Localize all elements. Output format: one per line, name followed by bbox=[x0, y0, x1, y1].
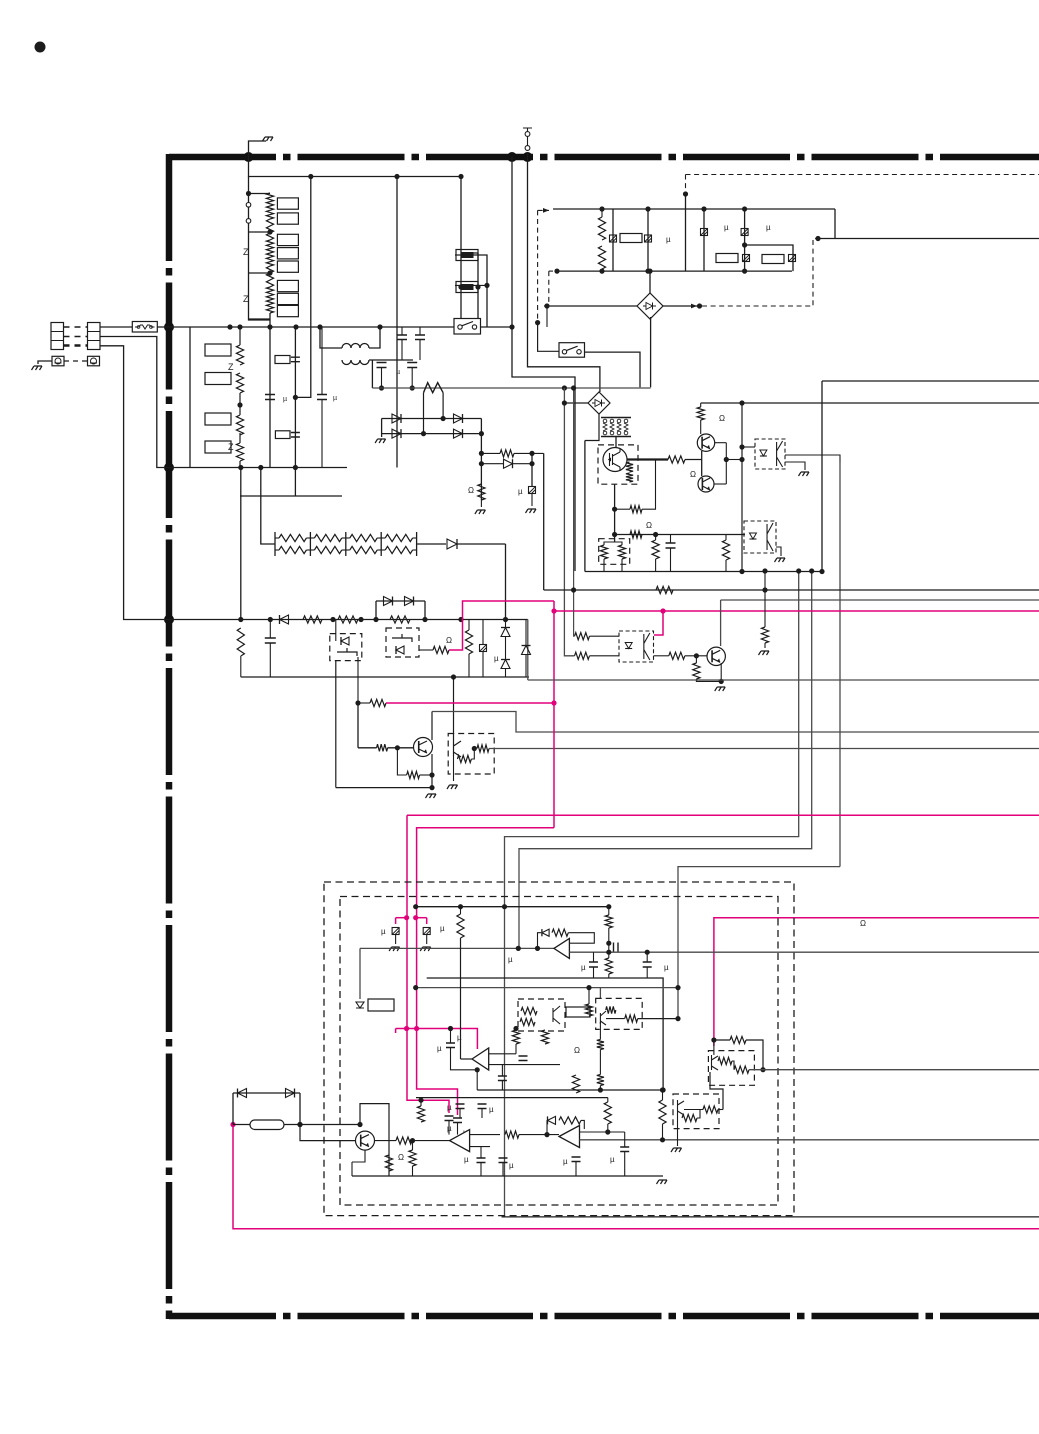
junction dashed drop bbox=[535, 320, 540, 325]
wire rect center tap bbox=[381, 419, 383, 438]
wire R41 to base bbox=[685, 459, 702, 461]
resistor R98 bbox=[520, 1018, 535, 1025]
diode D74 bbox=[454, 414, 463, 423]
wire chain bar 3 bbox=[380, 532, 382, 556]
resistor R110 bbox=[559, 1117, 581, 1124]
wire C96 stub bbox=[501, 1065, 503, 1076]
resistor R14 value box bbox=[277, 261, 298, 272]
wire R66 left bbox=[358, 702, 370, 704]
junction relay ladder bbox=[458, 174, 463, 179]
wire R100b top bbox=[588, 988, 590, 1004]
driver dashed box B bbox=[596, 998, 643, 1029]
resistor R24 bbox=[236, 443, 243, 461]
junction O1 w2 bbox=[516, 946, 521, 951]
wire ladder bottom corner bbox=[249, 318, 271, 320]
junction R117 top bbox=[660, 1087, 665, 1092]
wire boxB left drop bbox=[357, 657, 359, 703]
wire chain stub 3a bbox=[381, 537, 385, 539]
wire C51 stubs bbox=[670, 535, 672, 544]
resistor R65 bbox=[433, 646, 449, 653]
wire chain bar 0 bbox=[274, 532, 276, 556]
wire lamp loop top bbox=[233, 1092, 300, 1094]
wire D2 gnd bbox=[677, 1115, 679, 1146]
transistor Q93 bbox=[356, 1131, 375, 1150]
capacitor C21 bbox=[265, 395, 275, 400]
wire choke top out bbox=[369, 341, 380, 348]
wire C98 stub2 bbox=[481, 1109, 483, 1119]
wire chain stub 1d bbox=[342, 549, 346, 551]
wire R74 to Q71 bbox=[685, 655, 707, 657]
resistor R92 bbox=[552, 929, 568, 936]
wire cluster left riser bbox=[584, 441, 586, 572]
junction dot border-top C bbox=[523, 152, 533, 162]
wire w1 step bbox=[502, 571, 799, 1217]
wire filter col240d bbox=[239, 461, 241, 468]
wire y590 net bbox=[544, 589, 1039, 591]
wire rail978 drop bbox=[426, 931, 428, 934]
bead FB3 bbox=[701, 229, 708, 236]
lamp LP1 bbox=[250, 1120, 284, 1130]
wire aux rail bbox=[169, 619, 454, 621]
bead FB6 bbox=[789, 255, 796, 262]
bead FB1 bbox=[610, 235, 617, 242]
resistor R101 bbox=[625, 1015, 638, 1022]
resistor R66 bbox=[370, 699, 386, 706]
transformer T1 core bbox=[601, 418, 631, 437]
wire FB9 gnd bbox=[395, 935, 397, 945]
capacitor C51 bbox=[666, 543, 676, 548]
wire U3 inputs2 bbox=[470, 1146, 490, 1148]
wire D68 bot bbox=[525, 655, 527, 678]
wire PC4 in top bbox=[573, 388, 576, 636]
wire R101 in bbox=[606, 1018, 625, 1020]
junction R111 bbox=[605, 1129, 610, 1134]
junction rail1090 a bbox=[598, 1087, 603, 1092]
wire cap C23 stub2 bbox=[321, 400, 323, 468]
svg-text:Ω: Ω bbox=[719, 414, 725, 423]
wire Q93 base bbox=[300, 1125, 356, 1141]
wire ladder left bbox=[249, 177, 271, 321]
resistor R76 bbox=[656, 586, 673, 593]
wire y255 link bbox=[455, 255, 487, 327]
wire D1 to D2 bbox=[710, 1072, 723, 1110]
wire aux corner to bus bbox=[527, 620, 529, 681]
wire R54 stubs bbox=[655, 535, 657, 541]
resistor chain R83 bottom bbox=[385, 546, 412, 553]
wire block2 vert744 bbox=[744, 209, 746, 271]
junction bypass b bbox=[422, 617, 427, 622]
resistor chain R81 bottom bbox=[314, 546, 341, 553]
resistor R91 bbox=[457, 914, 464, 938]
wire R102 link bbox=[515, 1044, 517, 1054]
wire R109 out bbox=[519, 1134, 559, 1136]
border top bbox=[169, 154, 1039, 161]
inductor L1 top winding bbox=[342, 344, 369, 349]
resistor chain R80 bottom bbox=[279, 546, 306, 553]
dashed net arrow run bbox=[538, 209, 549, 211]
thermistor TH2 box bbox=[456, 282, 478, 293]
wire D66 link bbox=[505, 637, 507, 660]
wire R75 link bbox=[695, 656, 697, 663]
wire lamp loop sides bbox=[232, 1093, 234, 1125]
junction row464 b bbox=[529, 461, 534, 466]
junction src a bbox=[612, 507, 617, 512]
wire w2 step bbox=[519, 571, 812, 948]
junction aux d bbox=[358, 617, 363, 622]
pink feed u-caps bbox=[395, 1029, 397, 1034]
resistor R10 element bbox=[266, 193, 273, 206]
wire R67 stubs bbox=[468, 620, 470, 631]
wire secondary bus bbox=[372, 387, 650, 389]
junction ladder b bbox=[267, 270, 272, 275]
ground Q64 bbox=[426, 794, 437, 798]
fusible resistor FR1 bbox=[424, 383, 444, 393]
junction staircase bbox=[357, 1122, 362, 1127]
junction col296 bbox=[293, 465, 298, 470]
pink bottom left bbox=[233, 1125, 1039, 1229]
dashed net top bbox=[537, 210, 539, 322]
resistor R100 bbox=[606, 1006, 616, 1013]
mosfet Q1 bbox=[603, 448, 627, 472]
junction relay L bbox=[458, 284, 463, 289]
wire bypass down bbox=[424, 601, 426, 620]
regulator dashed box D2 bbox=[673, 1094, 719, 1129]
pink junction y611 bbox=[551, 608, 556, 613]
resistor R69 bbox=[407, 771, 420, 778]
wire PC4 in bot2 bbox=[590, 655, 620, 657]
wire rect row1 bbox=[382, 418, 482, 420]
capacitor C32 value box bbox=[716, 254, 738, 263]
wire PC2 gnd bbox=[785, 462, 805, 470]
regulator Q65 glyph bbox=[454, 741, 462, 757]
wire boxA drop bbox=[335, 660, 337, 788]
wire lamp loop sides2 bbox=[299, 1093, 301, 1125]
snubber bail bbox=[604, 542, 622, 545]
resistor R74 bbox=[669, 652, 685, 659]
junction rail978 corner bbox=[661, 1087, 666, 1092]
wire R118 bot bbox=[420, 1122, 422, 1125]
junction PC4 top bus bbox=[571, 385, 576, 390]
wire R32 stub bbox=[601, 269, 603, 271]
junction C28 bus bbox=[410, 385, 415, 390]
wire C95 stub bbox=[450, 1029, 452, 1044]
wire x543 drop2 bbox=[543, 453, 545, 590]
wire x527 drop staircase bbox=[528, 157, 600, 392]
fuse F1 glyph bbox=[135, 326, 155, 328]
wire mid rail1097 bbox=[416, 1097, 608, 1099]
junction PC4 top feed bbox=[571, 587, 576, 592]
arrow bridge1 out bbox=[691, 304, 697, 309]
junction O1 out a bbox=[606, 950, 611, 955]
wire Q64 base div bbox=[397, 748, 406, 775]
wire block2 right vert bbox=[834, 209, 836, 239]
op-amp U3 bbox=[450, 1130, 470, 1152]
wire ladder row links bbox=[249, 231, 271, 233]
junction w1 rail bbox=[796, 568, 801, 573]
wire block2 left vert bbox=[703, 209, 705, 271]
junction filter b bbox=[237, 402, 242, 407]
varistor VA3 value box bbox=[205, 413, 231, 425]
junction dot border-top B bbox=[507, 152, 517, 162]
transistor Q2 bbox=[697, 434, 714, 451]
bead FB8 bbox=[529, 487, 536, 494]
wire rect row1 vert bbox=[480, 419, 482, 501]
dashed stub mid bbox=[548, 271, 550, 306]
wire C27 stub2 bbox=[381, 368, 383, 389]
wire R63 bot bbox=[240, 656, 242, 677]
ground rail1176 bbox=[657, 1180, 668, 1184]
wire x512 drop bbox=[512, 157, 575, 571]
wire PC4 in top2 bbox=[590, 635, 620, 637]
diode D92 bbox=[548, 1116, 556, 1124]
pink branch caps bbox=[396, 917, 407, 919]
ground D2 bbox=[671, 1148, 682, 1152]
thermistor TH1 box bbox=[456, 250, 478, 261]
regulator Q95 glyph bbox=[678, 1100, 685, 1115]
wire C101 stub bbox=[480, 1147, 482, 1158]
wire row464b bbox=[513, 463, 532, 465]
wire filter left vert bbox=[189, 327, 191, 468]
bead FB2 bbox=[645, 235, 652, 242]
capacitor C104 bbox=[445, 1116, 454, 1121]
resistor R93 bbox=[605, 915, 612, 928]
wire block1 bottom rail bbox=[556, 270, 792, 272]
wire block2 out bbox=[818, 238, 1039, 240]
svg-text:Ω: Ω bbox=[398, 1153, 404, 1162]
wire U2 out bbox=[461, 1058, 473, 1060]
junction R113 out bbox=[760, 1067, 765, 1072]
capacitor C102 bbox=[499, 1158, 508, 1163]
junction Q64 base bbox=[395, 745, 400, 750]
resistor chain R82 top bbox=[350, 534, 377, 541]
resistor R22 bbox=[236, 373, 243, 393]
junction boxC in bbox=[451, 674, 456, 679]
wire C103 stub bbox=[457, 1123, 459, 1135]
junction mains x512 bbox=[509, 324, 514, 329]
junction y285 bbox=[484, 283, 489, 288]
wire line3 drop bbox=[100, 346, 169, 620]
wire R69 to gnd bbox=[420, 774, 432, 776]
bus y680 bbox=[528, 679, 1039, 681]
resistor R79 bbox=[478, 484, 485, 500]
wire R104 stub bbox=[575, 1059, 577, 1075]
wire chain stub 2a bbox=[346, 537, 350, 539]
wire rail907 bbox=[416, 906, 609, 908]
wire R94 top bbox=[608, 952, 610, 958]
junction lamp right bbox=[297, 1122, 302, 1127]
resistor R107 bbox=[396, 1137, 412, 1144]
wire chain stub 0c bbox=[275, 549, 279, 551]
wire chain stub 0d bbox=[306, 549, 310, 551]
ground FB9 bbox=[389, 947, 400, 951]
wire chain bar 4 bbox=[416, 532, 418, 556]
wire SW2 out bbox=[585, 352, 640, 387]
wire step y711 bbox=[432, 712, 1039, 733]
svg-text:Z: Z bbox=[243, 294, 249, 304]
capacitor C100 bbox=[620, 1147, 629, 1152]
pink vertical x554 bbox=[553, 601, 555, 828]
resistor R67 bbox=[465, 630, 472, 654]
wire w3 step bbox=[678, 867, 840, 1019]
zener ZD2 bbox=[356, 1002, 364, 1008]
wire Q pair out bbox=[726, 459, 742, 461]
resistor R72 bbox=[575, 633, 590, 640]
varistor VA4 value box bbox=[205, 441, 231, 453]
wire y403 bus bbox=[701, 402, 1039, 404]
resistor R11 value box bbox=[277, 213, 298, 224]
wire rail987 drop bbox=[599, 988, 601, 999]
junction R113 in bbox=[711, 1037, 716, 1042]
wire bypass up bbox=[375, 601, 377, 620]
junction O1 fb bbox=[535, 946, 540, 951]
wire C92 stub bbox=[593, 952, 595, 962]
thermistor TH2 element bbox=[461, 284, 474, 290]
resistor R17 element bbox=[266, 300, 273, 313]
wire T1 to mosfet bbox=[615, 437, 617, 449]
wire C93 stub2 bbox=[646, 967, 648, 978]
wire R93 stub bbox=[608, 907, 610, 915]
wire block1 vert648 bbox=[647, 209, 649, 271]
wire O1 fb bbox=[538, 933, 542, 949]
junction bridge1 top bbox=[647, 269, 652, 274]
varistor VA1 value box bbox=[205, 344, 231, 356]
wire R106 bot bbox=[599, 1086, 601, 1091]
capacitor C23 bbox=[317, 395, 327, 400]
resistor R94 bbox=[605, 958, 612, 974]
junction mains x320 bbox=[317, 324, 322, 329]
resistor R12 element bbox=[266, 219, 273, 240]
svg-text:µ: µ bbox=[581, 963, 586, 972]
wire boxC out bbox=[489, 748, 1039, 750]
junction dot border-left aux bbox=[164, 615, 174, 625]
junction Q64 emitter res bbox=[429, 772, 434, 777]
wire C28 stub2 bbox=[411, 368, 413, 389]
wire bridge1 drop vert bbox=[546, 306, 548, 327]
wire filter to aux drop bbox=[240, 468, 242, 620]
pink bus y815 bbox=[407, 814, 1039, 816]
wire driver out bbox=[638, 1018, 678, 1020]
junction dot border-top A bbox=[244, 152, 254, 162]
resistor chain R80 top bbox=[279, 534, 306, 541]
wire ladder right vert bbox=[295, 177, 310, 398]
wire rail1176 drop bbox=[351, 1162, 353, 1176]
resistor R117 bbox=[659, 1100, 666, 1124]
wire U3 inputs bbox=[470, 1134, 500, 1136]
junction mains x270 bbox=[267, 324, 272, 329]
svg-text:µ: µ bbox=[494, 654, 499, 663]
wire cap C25 stub bbox=[401, 327, 403, 335]
junction 685 drop bbox=[683, 191, 688, 196]
wire aux right corner bbox=[528, 620, 530, 678]
resistor R51 bbox=[630, 506, 642, 513]
wire line to fuse bbox=[100, 326, 132, 328]
wire row453 bbox=[481, 452, 500, 454]
dashed return bbox=[547, 305, 699, 307]
wire choke bot in bbox=[296, 359, 342, 361]
resistor R109 bbox=[505, 1131, 519, 1138]
capacitor C91 bbox=[614, 943, 619, 952]
junction ladder far bbox=[394, 174, 399, 179]
resistor R113 bbox=[730, 1036, 746, 1043]
wire R75 gnd bbox=[696, 679, 721, 681]
regulator dashed box C bbox=[448, 734, 494, 775]
svg-text:µ: µ bbox=[396, 369, 400, 376]
wire relay left bbox=[460, 177, 462, 319]
wire U2 out riser bbox=[460, 938, 462, 1059]
dashed link line2 bbox=[64, 336, 88, 338]
junction 744 a bbox=[742, 206, 747, 211]
wire dashcorner drop bbox=[685, 194, 687, 271]
connector CN1 circles bbox=[525, 146, 530, 151]
capacitor C95 bbox=[446, 1043, 455, 1048]
capacitor C26 bbox=[415, 335, 425, 340]
resistor R103 bbox=[541, 1030, 548, 1044]
diode D91 bbox=[542, 929, 549, 936]
wire C97 stub2 bbox=[459, 1109, 461, 1119]
junction bridge1 left bbox=[544, 303, 549, 308]
pink junction c bbox=[404, 915, 409, 920]
wire R105 link2 bbox=[599, 1050, 601, 1075]
wire FR1 right leg bbox=[442, 393, 444, 419]
junction rail571 b bbox=[819, 569, 824, 574]
svg-text:µ: µ bbox=[724, 223, 729, 232]
junction R31 top bbox=[599, 206, 604, 211]
dashed top right bbox=[685, 175, 687, 195]
regulator Q94 glyph bbox=[712, 1055, 719, 1070]
wire chain bar 2 bbox=[345, 532, 347, 556]
resistor R10 value box bbox=[277, 198, 298, 209]
socket E2 glyph bbox=[91, 358, 97, 364]
wire bridge1 in bbox=[547, 305, 637, 307]
wire chain stub 1b bbox=[342, 537, 346, 539]
diode D73 bbox=[392, 414, 401, 423]
wire R31 stub bbox=[601, 209, 603, 217]
wire D1 out bbox=[749, 1069, 1039, 1071]
wire R51 wire bbox=[615, 508, 630, 510]
op-amp U1 bbox=[554, 938, 570, 958]
wire x543 drop bbox=[533, 453, 544, 590]
scr dashed box bbox=[330, 634, 362, 661]
junction R100b bbox=[586, 985, 591, 990]
resistor R53b bbox=[630, 531, 642, 538]
svg-text:µ: µ bbox=[440, 924, 445, 933]
wire neutral drop bbox=[100, 337, 169, 468]
junction row453 b bbox=[529, 451, 534, 456]
wire y381 bus bbox=[822, 380, 1039, 382]
pink horiz y1028 bbox=[396, 1029, 478, 1050]
svg-text:Ω: Ω bbox=[860, 919, 866, 928]
resistor R100b bbox=[585, 1004, 592, 1016]
transistor Q71 bbox=[707, 647, 725, 665]
resistor R16 element bbox=[266, 287, 273, 300]
resistor R61 bbox=[303, 616, 322, 623]
bead FB10 bbox=[423, 928, 430, 935]
wire R77 drop bbox=[764, 590, 766, 627]
connector P2 dividers bbox=[88, 332, 101, 341]
capacitor C30 value box bbox=[275, 356, 290, 364]
wire FB7 bot bbox=[482, 652, 484, 678]
wire lamp staircase bbox=[360, 1104, 389, 1176]
resistor R108b bbox=[409, 1150, 416, 1166]
junction sec feed bbox=[562, 385, 567, 390]
junction R117 bus bbox=[660, 1137, 665, 1142]
wire R42 to Q2 bbox=[700, 420, 702, 434]
wire cap C26 stub2 bbox=[419, 340, 421, 361]
connector P1 housing bbox=[51, 323, 64, 350]
wire choke to bus drop bbox=[371, 360, 373, 388]
diode D65 bbox=[396, 646, 404, 654]
capacitor C106 bbox=[519, 1056, 528, 1061]
